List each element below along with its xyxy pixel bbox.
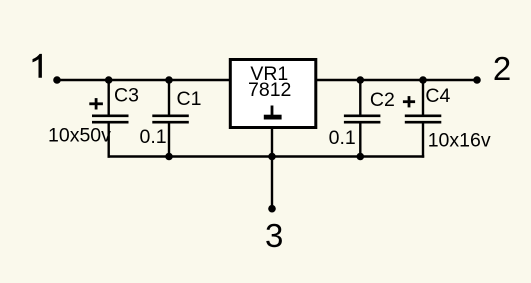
C3 polarity plus [89,98,103,109]
svg-text:0.1: 0.1 [329,127,356,149]
junction C3 top [105,76,113,84]
svg-text:0.1: 0.1 [140,126,167,148]
junction C2 bottom [357,153,365,161]
junction C1 top [165,76,173,84]
junction ground rail center [268,153,276,161]
node 1 label [33,54,42,78]
svg-text:C4: C4 [425,85,450,107]
svg-text:10x16v: 10x16v [428,130,491,152]
regulator VR1 box [230,60,315,128]
wire input rail [57,79,229,81]
ground symbol inside VR1 [264,106,282,120]
ground rail wire [108,155,425,157]
svg-text:C3: C3 [114,84,139,106]
capacitor C1 [152,80,189,158]
wire VR1 ground to node 3 [271,128,273,209]
terminal 3 dot [268,205,276,213]
wire output rail [317,79,477,81]
C4 polarity plus [403,96,415,107]
terminal 2 dot [473,76,481,84]
capacitor C2 [344,80,381,158]
junction C2 top [357,76,365,84]
svg-text:2: 2 [493,50,511,87]
svg-text:10x50v: 10x50v [48,124,111,146]
svg-text:3: 3 [265,217,283,254]
svg-text:7812: 7812 [248,79,291,101]
svg-text:C1: C1 [177,88,202,110]
junction C1 bottom [165,153,173,161]
svg-text:C2: C2 [370,89,395,111]
terminal 1 dot [53,76,61,84]
capacitor C4 [405,80,442,158]
junction C4 top [419,76,427,84]
capacitor C3 [92,80,129,158]
